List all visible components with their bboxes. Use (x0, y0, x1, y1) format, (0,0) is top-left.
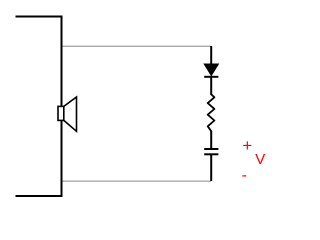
diode D1 triangle (204, 64, 218, 76)
wire coil to capacitor (210, 131, 212, 149)
svg-text:+: + (242, 136, 252, 155)
wire diode to coil (210, 77, 212, 95)
svg-text:V: V (255, 151, 265, 168)
coil L1 zigzag (208, 94, 215, 131)
svg-text:-: - (242, 167, 247, 184)
wire bottom net (gray) (62, 180, 212, 182)
wire left terminal bracket (16, 17, 62, 197)
wire diode anode (210, 46, 212, 65)
capacitor C1 bottom plate (204, 153, 218, 155)
capacitor C1 top plate (204, 148, 218, 150)
wire top net (gray) (62, 45, 212, 47)
wire capacitor to bottom net (210, 154, 212, 181)
speaker LS1 (58, 97, 77, 131)
diode D1 cathode bar (204, 76, 218, 78)
